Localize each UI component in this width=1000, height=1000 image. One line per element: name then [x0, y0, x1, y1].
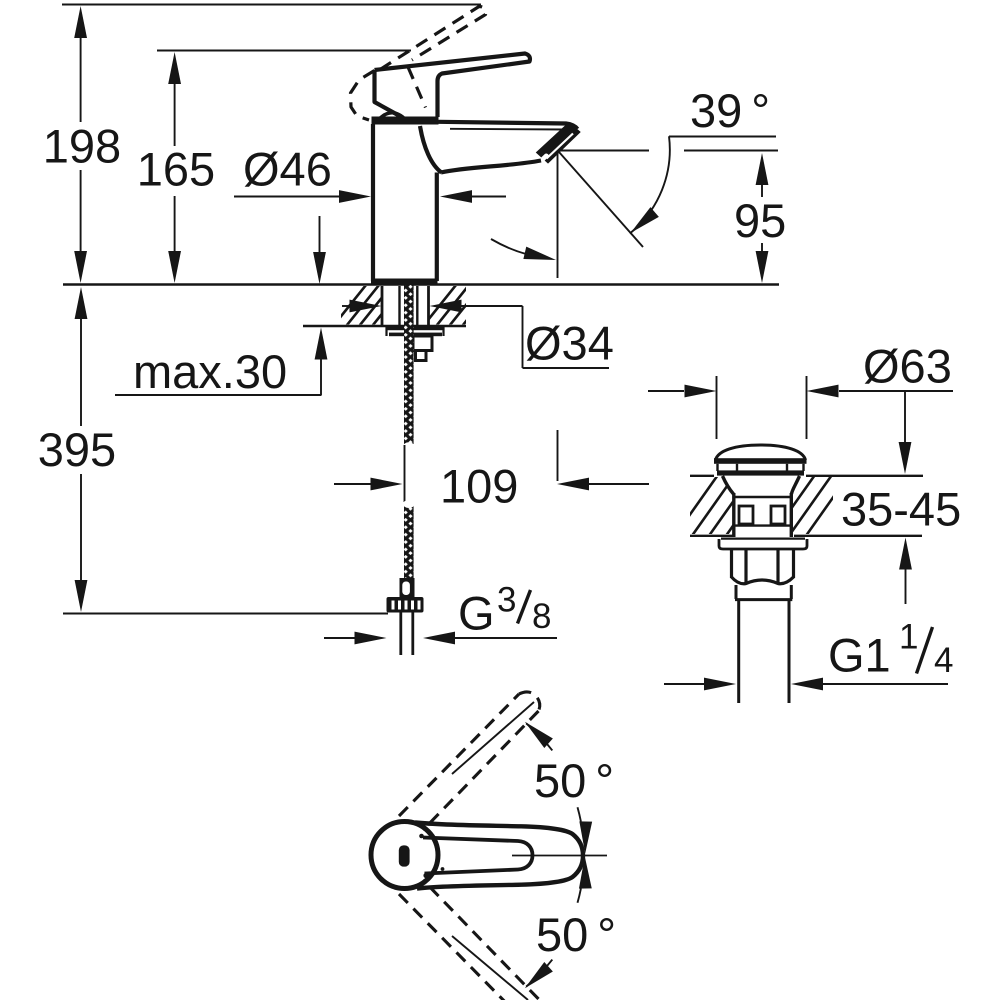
svg-text:109: 109 [440, 460, 518, 513]
dim 395 [80, 318, 82, 581]
hose end fitting [400, 578, 415, 597]
body inner S-curve [420, 126, 442, 173]
dim G 3/8 [324, 637, 557, 639]
drain cap dome [716, 445, 806, 460]
dim 198 [80, 37, 82, 252]
mounting nut [413, 336, 432, 361]
handle / body joint bar [372, 117, 439, 125]
svg-text:max.30: max.30 [133, 345, 287, 398]
svg-text:G1: G1 [828, 629, 891, 682]
handle screw blob [399, 845, 410, 866]
drain tailpipe [739, 600, 789, 703]
spout underside [441, 161, 541, 173]
drain collar [735, 585, 792, 600]
svg-text:8: 8 [532, 597, 551, 636]
dashed handle position lower [399, 880, 539, 1000]
pivot circle [371, 822, 438, 889]
flow swivel arc arrow [491, 239, 528, 255]
Ø63 dim [648, 376, 953, 439]
svg-text:35-45: 35-45 [841, 483, 961, 536]
braided hose lower segment [404, 505, 414, 580]
drain counter lines [690, 476, 923, 536]
39 degree ray (diagonal) [559, 152, 643, 247]
supply tube [401, 613, 413, 656]
lever outline [415, 823, 583, 889]
drain overflow slots [739, 506, 785, 524]
handle pivot dome [378, 113, 406, 120]
dim G1 1/4 [664, 683, 948, 685]
braided hose upper segment [404, 285, 414, 444]
G3/8 connection nut [387, 597, 424, 613]
svg-text:95: 95 [734, 194, 786, 247]
top reference line (198) [62, 3, 481, 5]
bottom reference line (395 / G3-8) [63, 612, 388, 614]
svg-text:1: 1 [899, 618, 918, 657]
svg-text:Ø34: Ø34 [525, 317, 614, 370]
dim max.30 [320, 216, 322, 395]
faucet base gasket bar [371, 279, 438, 286]
hose break centerline [404, 445, 406, 502]
counter top line [63, 283, 779, 285]
aerator vertical extension line [557, 153, 559, 481]
50 deg arc lower [578, 889, 581, 903]
faucet solid handle lever [375, 54, 530, 118]
dim Ø34 leader [342, 306, 609, 368]
max.30 shelf line [115, 394, 322, 396]
faucet body right edge [435, 173, 439, 282]
drain counter hatching [672, 472, 851, 540]
svg-text:198: 198 [43, 120, 121, 173]
svg-text:395: 395 [38, 423, 116, 476]
faucet spout top edge [439, 122, 578, 129]
reference line 165 [157, 49, 411, 51]
svg-text:50°: 50° [534, 754, 614, 807]
svg-text:Ø46: Ø46 [243, 143, 332, 196]
dashed handle position upper [399, 692, 540, 830]
svg-text:4: 4 [934, 641, 953, 680]
drain hex nut [732, 549, 794, 584]
mounting washer [386, 326, 444, 330]
dim 165 [174, 83, 176, 252]
centerline [512, 855, 607, 857]
50 deg leader lower [452, 936, 528, 1000]
svg-text:50°: 50° [536, 908, 616, 961]
50 deg arc upper [526, 723, 552, 750]
50 deg leader upper [452, 702, 534, 774]
39 degree arc [630, 136, 670, 233]
spout top inner edge line [450, 129, 574, 131]
svg-text:3: 3 [497, 581, 516, 620]
dim 35-45 [904, 392, 907, 604]
counter bottom line left [303, 325, 466, 327]
dim Ø46 [234, 196, 506, 198]
dashed raised handle [351, 7, 486, 121]
threaded shank outline [382, 286, 429, 325]
aerator slanted face [537, 123, 581, 164]
dim 95 + 39deg [558, 137, 778, 253]
handle detail dots [419, 834, 424, 839]
lever inner grip [423, 838, 533, 874]
svg-text:165: 165 [137, 143, 215, 196]
svg-text:G: G [458, 587, 495, 640]
dim 109 [334, 483, 649, 485]
drain body through counter [723, 476, 800, 537]
faucet body left edge [371, 124, 375, 281]
drain flange [719, 539, 807, 549]
svg-text:39°: 39° [690, 84, 770, 137]
svg-text:Ø63: Ø63 [863, 340, 952, 393]
